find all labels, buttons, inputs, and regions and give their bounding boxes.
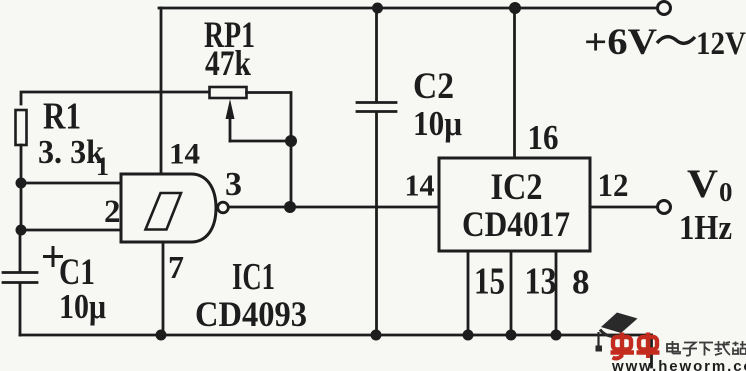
svg-text:3: 3 (225, 166, 242, 203)
svg-text:R1: R1 (43, 96, 81, 138)
label plus C1 (43, 246, 63, 267)
svg-text:47k: 47k (205, 43, 251, 83)
wire: IC1 output to IC2 pin 14 (229, 206, 439, 209)
svg-text:IC2: IC2 (491, 167, 543, 208)
watermark glyph zhan (732, 341, 746, 354)
svg-text:10μ: 10μ (59, 287, 106, 326)
svg-text:+6V: +6V (584, 22, 657, 63)
capacitor C1 bottom lead (19, 284, 22, 335)
wire: wiper to right lead (230, 140, 291, 143)
junction dot pin13 (506, 330, 517, 341)
svg-text:15: 15 (474, 261, 505, 303)
junction dot pin15 (463, 330, 474, 341)
wire: RP1 right lead (247, 93, 292, 208)
wire: IC2 pin 13 (510, 251, 513, 335)
capacitor C1 plates (3, 271, 37, 274)
watermark red bug glyph 2 (637, 333, 660, 359)
watermark glyph dian (667, 341, 680, 354)
junction dot pin7/bottom (156, 330, 167, 341)
wire: IC1 pin 7 to bottom rail (162, 242, 165, 335)
wire: IC1 input 1 (21, 182, 121, 185)
wire: IC2 pin 8 (555, 251, 558, 335)
svg-text:C2: C2 (413, 66, 454, 107)
wire: left rail input1 to input2 (20, 183, 23, 230)
wire: top rail down to IC1 pin 14 (160, 8, 163, 174)
svg-text:www.heworm.com: www.heworm.com (611, 358, 746, 371)
svg-text:10μ: 10μ (413, 104, 462, 143)
svg-text:1Hz: 1Hz (679, 208, 732, 247)
junction dot C2 top (372, 3, 383, 14)
output bubble (218, 202, 229, 213)
watermark glyph zi (683, 343, 698, 356)
capacitor C2 bottom lead (375, 113, 378, 335)
junction dot input1 (16, 178, 27, 189)
capacitor C2 plates (357, 101, 396, 104)
svg-text:V: V (687, 161, 718, 206)
output terminal (658, 201, 671, 214)
IC2 box (439, 158, 590, 251)
wire: IC2 pin 15 (467, 251, 470, 335)
wire: IC2 pin 12 output (590, 206, 657, 209)
capacitor C2 top lead (375, 8, 378, 101)
svg-text:2: 2 (104, 194, 121, 230)
svg-text:0: 0 (719, 177, 733, 207)
svg-text:CD4017: CD4017 (462, 204, 570, 244)
potentiometer RP1 body (210, 87, 247, 98)
junction dot C2 bottom (371, 330, 382, 341)
wire: R1 bottom to input1 node (20, 145, 23, 183)
svg-text:13: 13 (525, 261, 557, 303)
junction dot output (284, 201, 296, 213)
wire: R1 top / RP1 left rail (y=92) (21, 92, 209, 104)
ground/bottom rail (20, 334, 652, 337)
svg-text:IC1: IC1 (232, 256, 275, 298)
watermark red bug glyph 1 (611, 333, 635, 359)
wire: IC2 pin 16 (513, 8, 516, 158)
svg-text:16: 16 (528, 118, 559, 157)
wire: +V top rail (159, 7, 657, 10)
watermark glyph xia (699, 343, 713, 356)
wire: IC1 input 2 (21, 229, 121, 232)
svg-text:14: 14 (405, 168, 435, 203)
power terminal (658, 2, 671, 15)
RP1 wiper arrow (226, 99, 235, 119)
resistor R1 (16, 110, 27, 145)
bottom rail stub (right end) (650, 335, 653, 367)
svg-text:8: 8 (572, 263, 590, 302)
watermark glyph zai (715, 341, 731, 355)
svg-text:14: 14 (169, 138, 200, 171)
junction dot input2 (16, 225, 27, 236)
schmitt hysteresis symbol (146, 193, 182, 230)
capacitor C1 top lead (19, 230, 22, 271)
svg-text:CD4093: CD4093 (195, 294, 307, 334)
svg-text:7: 7 (168, 249, 184, 285)
junction dot wiper (285, 135, 297, 147)
svg-text:12: 12 (598, 168, 629, 204)
junction dot pin16 top (509, 2, 521, 14)
svg-text:3. 3k: 3. 3k (38, 134, 104, 171)
junction dot pin8 (551, 330, 562, 341)
svg-text:12V: 12V (696, 26, 746, 62)
op: IC1 NAND gate body (121, 174, 216, 242)
watermark logo graduation cap (596, 313, 638, 352)
svg-text:1: 1 (96, 152, 109, 181)
